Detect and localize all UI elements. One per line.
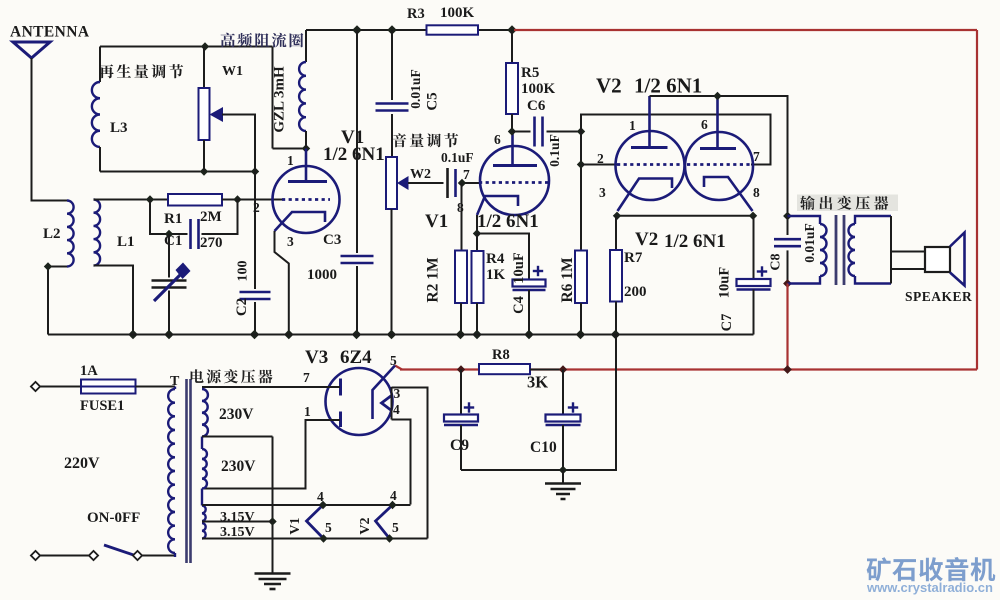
transformer T1 core: [185, 379, 188, 563]
svg-text:R7: R7: [624, 250, 643, 266]
capacitor 0.1uF coupling: [446, 168, 449, 198]
wire heater bus bottom: [202, 538, 428, 540]
resistor R7: [610, 250, 622, 302]
junction tuning cap tap: [165, 230, 173, 238]
wire V2 plates bus: [650, 96, 788, 213]
wire B+ top: [514, 29, 977, 31]
potentiometer W2 wiper arrow: [397, 176, 409, 190]
wire filter bottom: [461, 335, 616, 471]
transformer T1 secondary fil1: [202, 506, 206, 522]
transformer T1 secondary HV2: [202, 449, 207, 489]
tube V1a cathode: [275, 212, 326, 231]
svg-text:2: 2: [597, 151, 604, 166]
tube V3 plate 2 (pin1): [339, 412, 342, 428]
svg-text:FUSE1: FUSE1: [80, 398, 124, 414]
resistor R2: [455, 251, 467, 304]
tube V1b envelope: [480, 146, 549, 215]
junction V1b grid: [458, 179, 466, 187]
junction cathode bus right: [749, 212, 757, 220]
svg-text:1A: 1A: [80, 363, 98, 379]
inductor L2: [67, 201, 74, 267]
wire V3 pin7: [202, 386, 340, 388]
svg-text:5: 5: [392, 520, 399, 535]
wire cathode to C4: [477, 234, 529, 280]
svg-text:C7: C7: [719, 314, 735, 332]
junction W1 bottom: [200, 167, 208, 175]
capacitor C3: [341, 255, 374, 258]
wire mains bottom: [40, 555, 89, 557]
capacitor C2: [240, 291, 271, 294]
svg-text:1: 1: [629, 118, 636, 133]
wire speaker bottom lead: [891, 268, 925, 270]
wire switch to primary: [142, 555, 175, 557]
wire B+ bottom: [400, 368, 977, 370]
wire C10 top: [562, 370, 564, 415]
tube V2b grid: [687, 163, 751, 166]
junction C10 top: [559, 365, 567, 373]
transformer T1 secondary fil2: [202, 523, 206, 539]
svg-text:100K: 100K: [521, 81, 556, 97]
resistor R5: [506, 63, 518, 114]
junction C4 ground: [524, 330, 534, 340]
wire R8 to C10 node: [530, 369, 563, 371]
wire mains to fuse: [40, 386, 81, 388]
wire V3 pin1: [202, 420, 340, 489]
tube V3 envelope: [326, 368, 393, 435]
svg-text:0.01uF: 0.01uF: [802, 223, 817, 262]
svg-text:6Z4: 6Z4: [340, 347, 372, 368]
svg-text:1/2 6N1: 1/2 6N1: [323, 144, 385, 165]
capacitor C6: [533, 117, 536, 147]
svg-text:4: 4: [393, 402, 400, 417]
resistor R3: [427, 25, 479, 34]
wire L3 top side: [99, 47, 101, 83]
resistor R4: [472, 251, 484, 303]
wire tuning cap bottom: [168, 291, 170, 335]
junction rail C5: [387, 25, 397, 35]
svg-text:1/2 6N1: 1/2 6N1: [664, 231, 726, 252]
junction R4 ground: [472, 330, 482, 340]
tube V2b cathode: [704, 177, 753, 211]
junction R7 ground: [611, 330, 621, 340]
wire C1 branch left: [150, 200, 188, 235]
wire R4 top: [476, 234, 478, 252]
tube V1b plate: [511, 132, 514, 166]
svg-text:5: 5: [390, 353, 397, 368]
terminal switch left: [89, 551, 98, 560]
transformer T1 primary: [174, 387, 176, 390]
inductor L1: [94, 200, 101, 266]
antenna symbol: [13, 42, 50, 58]
svg-text:C4: C4: [511, 296, 527, 314]
svg-text:C9: C9: [450, 437, 469, 454]
svg-text:C6: C6: [527, 98, 546, 114]
junction L1 ground: [128, 330, 138, 340]
wire T2 secondary right: [890, 216, 892, 284]
label C9 plus: [464, 406, 474, 408]
capacitor C8: [774, 238, 801, 241]
wire V2a grid: [581, 164, 617, 166]
transformer T1 secondary HV1: [202, 389, 208, 437]
tube V2a grid: [617, 163, 683, 166]
label regen 再生量调节: [99, 64, 183, 78]
wire C7 top: [753, 216, 755, 279]
svg-text:V2: V2: [596, 74, 622, 98]
wire grid bus down: [580, 132, 582, 251]
wire R5 top: [511, 30, 513, 63]
svg-text:8: 8: [753, 185, 760, 200]
junction V1b plate node: [508, 127, 516, 135]
wire B+ right side: [976, 30, 978, 370]
svg-text:L2: L2: [43, 226, 61, 242]
junction filament tap: [268, 517, 276, 525]
svg-text:3.15V: 3.15V: [220, 510, 255, 525]
wire grid node left: [150, 199, 168, 201]
wire C7 bottom: [753, 290, 755, 335]
capacitor C1: [189, 219, 192, 249]
svg-text:SPEAKER: SPEAKER: [905, 289, 972, 304]
junction B+ T2 feed: [783, 365, 792, 374]
potentiometer W1 wiper arrow: [210, 107, 224, 122]
svg-text:V1: V1: [425, 211, 448, 232]
tube V1a plate: [305, 149, 308, 182]
svg-text:3: 3: [287, 234, 294, 249]
svg-text:V2: V2: [635, 229, 658, 250]
wire R7 top: [615, 216, 617, 250]
wire L1 bottom to ground rail: [94, 266, 134, 335]
tube V2a plate: [648, 96, 651, 148]
junction V1a cathode ground: [284, 330, 294, 340]
junction R1 left: [146, 195, 154, 203]
junction C10 ground: [559, 466, 567, 474]
wire top rail: [306, 29, 514, 31]
svg-text:10uF: 10uF: [511, 252, 527, 284]
svg-text:R6 1M: R6 1M: [559, 257, 576, 303]
svg-text:L3: L3: [110, 120, 128, 136]
capacitor C9: [444, 415, 478, 422]
wire C9 bottom: [460, 425, 462, 470]
svg-text:6: 6: [701, 117, 708, 132]
svg-text:T: T: [170, 374, 180, 389]
wire W2 bottom: [391, 209, 393, 335]
wire C8 bottom seg: [787, 250, 789, 283]
tube V1a envelope: [273, 166, 340, 233]
rf choke GZL 3mH: [299, 62, 306, 131]
junction L2 bottom corner: [44, 262, 52, 270]
svg-text:230V: 230V: [221, 458, 256, 475]
rf choke bottom lead: [305, 131, 307, 149]
tube V2b envelope: [685, 132, 753, 200]
junction R2 ground: [456, 330, 466, 340]
wire antenna stem: [32, 58, 68, 201]
junction V2 heater pin5: [385, 534, 393, 542]
wire C1 branch right: [202, 200, 238, 235]
potentiometer W2: [386, 157, 397, 209]
svg-text:7: 7: [303, 370, 310, 385]
junction V2b plate: [713, 92, 721, 100]
svg-text:7: 7: [463, 167, 470, 182]
fuse FUSE1: [81, 380, 136, 394]
junction W1 top: [201, 42, 209, 50]
wire V1b grid to R2: [461, 183, 463, 251]
tube V3 heater: [382, 396, 392, 411]
wire R7 bottom: [615, 302, 617, 335]
junction T2 primary bottom: [783, 279, 792, 288]
ground symbol mains: [255, 572, 291, 575]
svg-text:www.crystalradio.cn: www.crystalradio.cn: [866, 580, 993, 595]
wire C3 top: [356, 30, 358, 253]
wire L3 bottom side: [99, 147, 101, 172]
label C4 plus: [533, 270, 543, 272]
watermark 矿石收音机: [867, 557, 996, 581]
wire C9 top: [460, 370, 462, 415]
resistor R1: [168, 194, 222, 206]
svg-text:R1: R1: [164, 211, 182, 227]
label power transformer 电源变压器: [191, 369, 273, 383]
potentiometer W1: [199, 88, 210, 140]
heater V2 symbol: [376, 505, 393, 539]
variable capacitor C-tune: [152, 279, 187, 282]
junction V2 heater pin4: [388, 501, 396, 509]
junction V2a grid: [577, 160, 585, 168]
tube V2a cathode: [618, 179, 673, 212]
wire C2 top: [254, 172, 256, 290]
svg-text:5: 5: [325, 520, 332, 535]
svg-text:C2: C2: [234, 298, 250, 316]
svg-text:L1: L1: [117, 234, 135, 250]
junction V1 heater pin5: [319, 534, 327, 542]
speaker: [925, 247, 950, 272]
junction C6 right: [577, 127, 585, 135]
wire C4 bottom: [528, 290, 530, 335]
wire V1b cathode down: [476, 215, 478, 234]
junction V1b cathode node: [473, 229, 481, 237]
tube V1a grid: [282, 198, 330, 201]
junction V1a plate node: [302, 144, 310, 152]
svg-text:R2 1M: R2 1M: [425, 257, 442, 303]
tube V1b cathode: [477, 196, 518, 215]
svg-text:1: 1: [304, 404, 311, 419]
svg-text:270: 270: [200, 235, 223, 251]
wire ground tap: [272, 437, 274, 574]
svg-text:7: 7: [753, 149, 760, 164]
wire filament tap: [202, 521, 273, 523]
wire plate node: [273, 148, 307, 150]
wire R5 to plate: [511, 114, 513, 133]
wire R6 bottom: [580, 303, 582, 335]
svg-text:R5: R5: [521, 65, 539, 81]
tube V2a envelope: [616, 131, 685, 200]
wire V3 cathode to B+: [395, 366, 402, 370]
wire W1 wiper: [222, 115, 255, 172]
junction cathode bus left: [613, 212, 621, 220]
capacitor C5: [376, 102, 409, 105]
transformer T1 secondary link: [201, 437, 203, 450]
svg-text:V3: V3: [305, 347, 328, 368]
svg-text:10uF: 10uF: [717, 267, 733, 299]
transformer T2 secondary: [855, 216, 891, 224]
resistor R6: [575, 251, 587, 304]
wire R4 bottom: [476, 303, 478, 335]
svg-text:3K: 3K: [527, 373, 548, 392]
svg-text:4: 4: [317, 489, 324, 504]
wire W2 wiper to cap: [408, 182, 444, 184]
label C7 plus: [757, 270, 767, 272]
wire W1 bottom lead: [203, 140, 205, 172]
transformer T2 primary: [788, 216, 821, 224]
switch blade: [104, 545, 135, 556]
svg-text:1: 1: [287, 153, 294, 168]
svg-text:100: 100: [236, 261, 251, 282]
svg-text:0.1uF: 0.1uF: [441, 150, 474, 165]
wire speaker top lead: [891, 251, 925, 253]
terminal switch right: [133, 551, 142, 560]
svg-text:2M: 2M: [200, 209, 222, 225]
label C10 plus: [568, 406, 578, 408]
svg-text:3: 3: [599, 185, 606, 200]
junction plate node T2: [783, 212, 792, 221]
capacitor C4: [513, 280, 546, 287]
svg-text:ON-0FF: ON-0FF: [87, 510, 140, 526]
wire V3 pin3 to heater bus: [392, 388, 428, 539]
wire heater bus top: [202, 504, 411, 506]
svg-text:C10: C10: [530, 439, 557, 456]
rf choke GZL top lead: [305, 30, 307, 62]
svg-text:ANTENNA: ANTENNA: [10, 24, 90, 41]
svg-text:1/2 6N1: 1/2 6N1: [477, 211, 539, 232]
junction rail C3: [352, 25, 362, 35]
junction rail B+: [507, 25, 517, 35]
wire C2 bottom: [254, 302, 256, 335]
wire grid bus up: [581, 115, 771, 165]
svg-text:C8: C8: [769, 253, 784, 270]
wire C5 top: [391, 30, 393, 100]
wire R2 bottom: [460, 303, 462, 335]
svg-text:R8: R8: [492, 347, 510, 363]
svg-text:V2: V2: [358, 517, 373, 534]
transformer T2 core: [835, 215, 838, 285]
wire C8 top seg: [787, 216, 789, 235]
wire V3 pin4 to heater bus: [392, 420, 411, 505]
wire cap to V1b grid: [460, 182, 480, 184]
wire R1 right: [222, 199, 238, 201]
wire L2 bottom to ground rail: [48, 267, 67, 335]
variable capacitor arrow: [154, 274, 181, 301]
svg-text:C3: C3: [323, 232, 341, 248]
wire regen bottom: [100, 171, 255, 173]
junction tuning cap ground: [164, 330, 174, 340]
resistor R8: [479, 364, 530, 374]
junction R1 right: [233, 195, 241, 203]
svg-text:V1: V1: [288, 517, 303, 534]
wire regen top: [100, 46, 273, 48]
svg-text:W1: W1: [222, 64, 243, 79]
tube V2b plate: [716, 96, 719, 149]
terminal mains top: [31, 382, 40, 391]
svg-text:4: 4: [390, 488, 397, 503]
svg-text:W2: W2: [410, 167, 431, 182]
wire L1 top to R1 node: [94, 199, 151, 201]
wire ground rail: [48, 334, 754, 336]
tube V3 cathode: [373, 366, 396, 420]
wire V2 cathode bus: [617, 215, 753, 217]
svg-text:1K: 1K: [486, 267, 506, 283]
svg-text:1000: 1000: [307, 267, 337, 283]
capacitor C7: [737, 279, 771, 286]
svg-text:R4: R4: [486, 251, 505, 267]
junction C3 ground: [352, 330, 362, 340]
svg-text:R3: R3: [407, 6, 425, 22]
junction R6 ground: [576, 330, 586, 340]
wire B+ to T2 primary: [786, 284, 788, 370]
wire C5 to W2: [391, 114, 393, 157]
svg-text:0.01uF: 0.01uF: [408, 69, 423, 108]
wire C10 bottom: [562, 425, 564, 470]
heater V1 symbol: [307, 505, 324, 539]
wire choke to plate node: [272, 47, 274, 149]
tube V1b grid: [479, 181, 549, 184]
junction C9 top: [457, 365, 465, 373]
capacitor C10: [546, 415, 581, 422]
svg-text:200: 200: [624, 284, 647, 300]
wire HV center tap: [202, 436, 273, 438]
tube V3 plate 1 (pin7): [339, 379, 342, 396]
svg-text:220V: 220V: [64, 455, 100, 472]
wire V3 heater bar: [391, 387, 393, 420]
label volume 音量调节: [393, 133, 459, 147]
junction C2 ground: [250, 330, 260, 340]
label output transformer 输出变压器: [797, 195, 898, 212]
wire grid lead V1a: [238, 199, 285, 201]
wire plate node to C6: [512, 131, 531, 133]
wire W1 top lead: [203, 47, 205, 89]
junction W2 ground: [387, 330, 397, 340]
svg-text:230V: 230V: [219, 406, 254, 423]
inductor L3: [92, 82, 100, 147]
terminal mains bottom: [31, 551, 40, 560]
label choke 高频阻流圈: [221, 33, 304, 48]
svg-text:6: 6: [494, 132, 501, 147]
svg-text:0.1uF: 0.1uF: [547, 134, 562, 167]
wire tuning cap top: [168, 234, 170, 278]
wire HV bottom: [201, 489, 203, 506]
wire fuse to primary: [136, 386, 176, 388]
junction W1 wiper bottom: [251, 167, 259, 175]
ground symbol filter: [562, 470, 564, 484]
wire V1a cathode to ground: [275, 231, 289, 335]
junction V1 heater pin4: [319, 501, 327, 509]
wire C6 to grids: [547, 131, 582, 133]
svg-text:2: 2: [253, 200, 260, 215]
svg-text:100K: 100K: [440, 5, 475, 21]
svg-text:C5: C5: [425, 92, 441, 110]
svg-text:1/2 6N1: 1/2 6N1: [634, 74, 702, 98]
svg-text:GZL 3mH: GZL 3mH: [272, 66, 288, 133]
wire C3 bottom: [356, 266, 358, 335]
